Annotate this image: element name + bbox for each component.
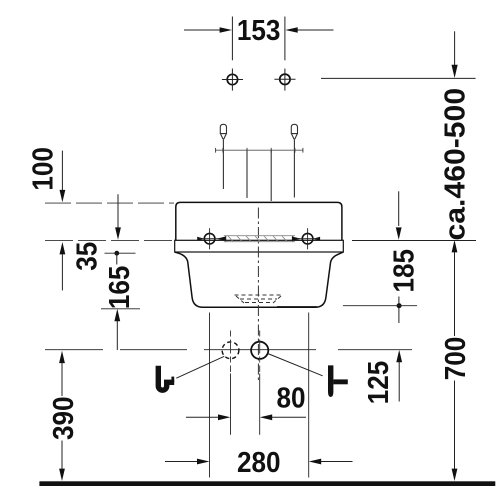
svg-text:280: 280 xyxy=(237,446,281,479)
svg-text:153: 153 xyxy=(237,14,281,47)
svg-text:125: 125 xyxy=(362,361,395,405)
svg-text:185: 185 xyxy=(387,249,420,293)
svg-text:35: 35 xyxy=(70,242,103,271)
svg-text:390: 390 xyxy=(47,396,80,440)
svg-text:80: 80 xyxy=(276,381,305,414)
svg-text:165: 165 xyxy=(103,266,136,310)
svg-text:ca.460-500: ca.460-500 xyxy=(439,88,471,241)
svg-text:100: 100 xyxy=(26,147,59,191)
svg-text:700: 700 xyxy=(439,337,472,381)
